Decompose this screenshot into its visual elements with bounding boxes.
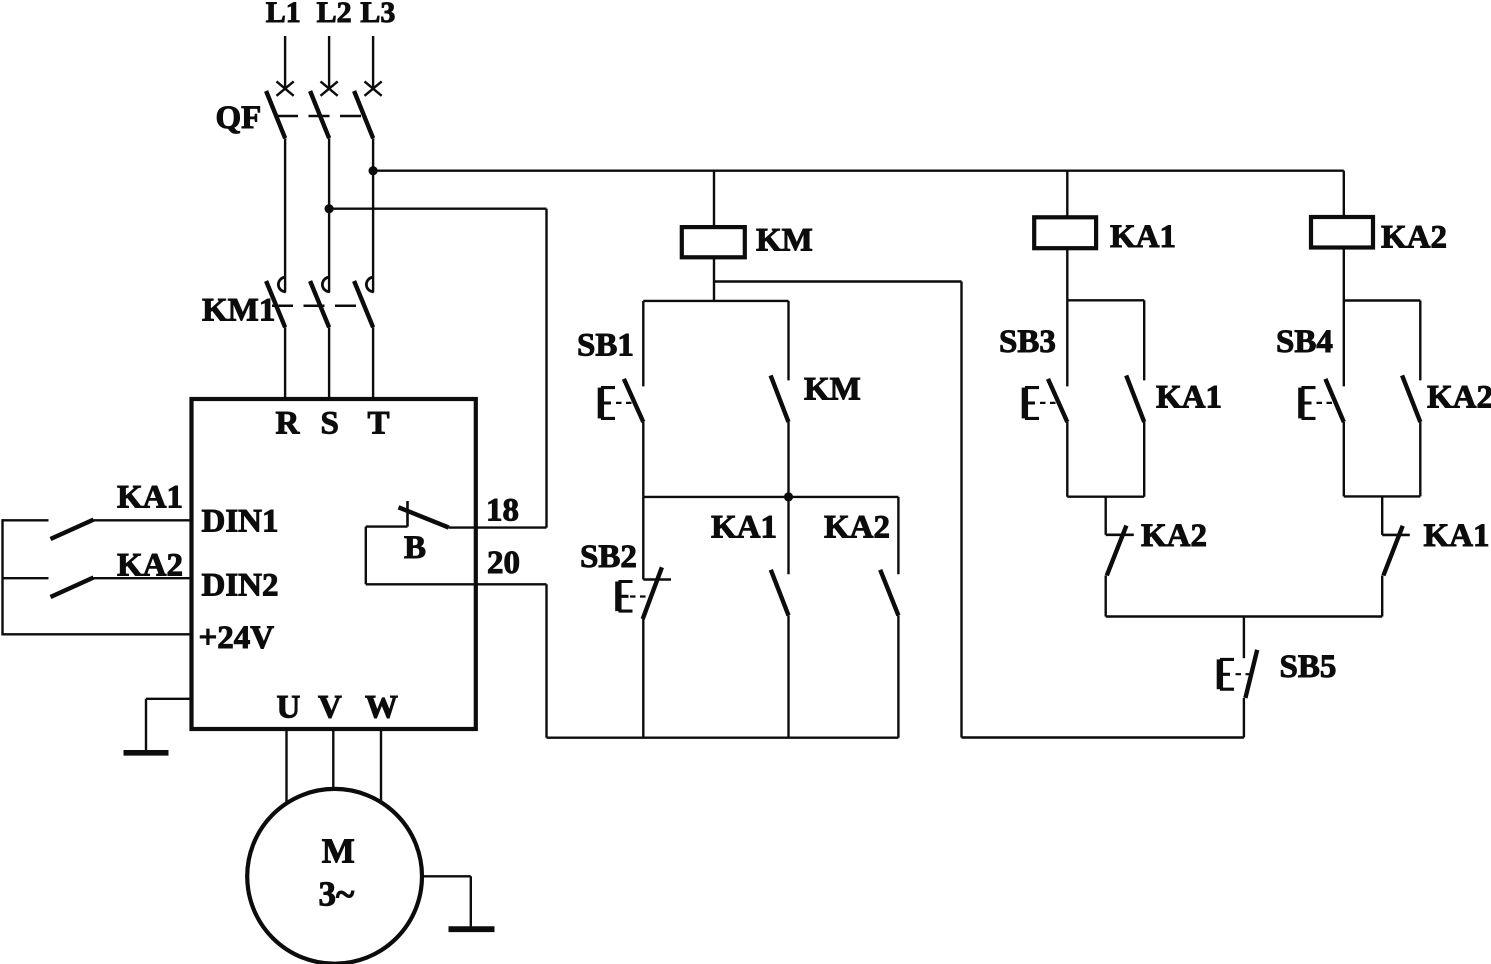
svg-text:KA2: KA2 <box>1141 518 1207 554</box>
svg-text:B: B <box>404 530 426 566</box>
svg-text:20: 20 <box>487 545 520 581</box>
wire inverter ground vertical <box>145 699 147 751</box>
pushbutton SB2 actuator E <box>619 580 633 612</box>
pushbutton SB2 link (dashed) <box>630 595 648 597</box>
wire bus corner down to KA2 coil <box>1343 171 1345 216</box>
wire middle bus <box>643 496 898 498</box>
wire bus drop to KM coil <box>713 171 715 226</box>
wire KM contact leg upper <box>787 301 789 381</box>
svg-text:18: 18 <box>486 493 519 529</box>
wire drop to KA1 NC contact <box>1381 496 1383 535</box>
wire KA1 NC leg lower <box>1381 576 1383 617</box>
pushbutton SB5 actuator E <box>1220 658 1234 691</box>
pushbutton SB5 blade <box>1245 650 1257 698</box>
wire terminal 20 row <box>366 583 547 585</box>
breaker QF pole 2 blade <box>310 91 329 138</box>
svg-text:S: S <box>321 406 339 442</box>
wire parallel bottom (SB3/KA1) <box>1067 496 1144 498</box>
contactor KM1 pole 1 fixed contact arc <box>278 277 285 292</box>
wire drop to SB5 <box>1243 617 1245 659</box>
pushbutton SB5 link (dashed) <box>1236 673 1251 675</box>
wire S-phase tap to corner <box>329 207 546 209</box>
svg-text:M: M <box>322 832 355 871</box>
svg-text:KA1: KA1 <box>1156 380 1222 416</box>
breaker QF pole 1 blade <box>266 91 285 138</box>
wire DIN1 row right segment <box>94 519 192 521</box>
svg-text:SB1: SB1 <box>577 328 634 364</box>
wire terminal 18 row <box>449 526 547 528</box>
svg-text:U: U <box>277 690 301 726</box>
relay contact KA2 blade (DIN2) <box>51 578 94 598</box>
svg-text:KM: KM <box>756 223 813 259</box>
wire KA1 coil bottom <box>1066 248 1068 300</box>
pushbutton SB3 actuator E <box>1025 386 1039 420</box>
inverter/VFD box U1 <box>192 399 476 729</box>
pushbutton SB4 actuator E <box>1302 386 1316 420</box>
svg-text:SB3: SB3 <box>999 324 1056 360</box>
wire DIN2 row left segment <box>3 577 49 579</box>
svg-text:W: W <box>365 690 398 726</box>
relay contact KA1 blade (hold) <box>1126 375 1144 422</box>
wire SB1 leg lower <box>642 422 644 497</box>
wire SB4 leg lower <box>1343 422 1345 496</box>
wire W to motor <box>380 729 382 803</box>
relay coil KA2 <box>1311 217 1373 248</box>
wire motor ground vertical <box>470 876 472 926</box>
wire KA2 contact leg lower <box>897 615 899 737</box>
pushbutton SB1 link (dashed) <box>616 402 634 404</box>
wire left return vertical <box>1 519 3 635</box>
pushbutton SB2 blade <box>643 567 662 619</box>
breaker QF linkage (dashed) <box>277 115 361 118</box>
ground bar (motor) <box>449 926 495 932</box>
svg-text:L2: L2 <box>317 0 352 29</box>
svg-text:QF: QF <box>216 100 262 136</box>
wire bottom return bus (middle) <box>547 737 899 739</box>
svg-text:KM1: KM1 <box>202 293 275 329</box>
wire +24V row <box>3 633 192 635</box>
wire parallel top (SB4/KA2) <box>1344 299 1421 301</box>
breaker QF pole 2 fixed contact X <box>321 81 338 95</box>
relay contact KA2 blade (mid) <box>880 570 898 616</box>
wire B left to bracket <box>366 525 408 527</box>
pushbutton SB4 blade <box>1325 379 1343 422</box>
wire KM1 pole 3 to inverter T <box>372 327 374 399</box>
wire L3 feeder <box>372 36 374 89</box>
svg-text:+24V: +24V <box>199 620 275 656</box>
ground bar (inverter) <box>124 750 169 756</box>
wire KM1 pole 2 to inverter S <box>328 327 330 399</box>
wire parallel top (SB1/KM) <box>643 300 788 302</box>
svg-text:L3: L3 <box>360 0 395 29</box>
svg-text:SB4: SB4 <box>1276 324 1333 360</box>
relay NC contact KA2 blade <box>1107 526 1127 576</box>
svg-text:L1: L1 <box>266 0 301 29</box>
wire bus drop to KA1 coil <box>1066 171 1068 216</box>
wire KA1 hold contact leg upper <box>1143 300 1145 380</box>
junction dot middle bus <box>784 492 793 501</box>
wire V to motor <box>332 729 334 790</box>
wire SB2 leg lower <box>642 619 644 738</box>
wire QF pole 3 to KM1 pole 3 <box>372 138 374 292</box>
svg-text:KM: KM <box>804 372 861 408</box>
junction dot T-phase to control bus <box>369 166 378 175</box>
relay contact KM blade <box>771 375 789 422</box>
wire QF pole 1 to KM1 pole 1 <box>284 138 286 292</box>
contactor KM1 pole 3 fixed contact arc <box>366 277 373 292</box>
svg-text:KA2: KA2 <box>1427 380 1491 416</box>
pushbutton SB1 actuator E <box>601 386 615 420</box>
wire KA1 contact leg upper <box>787 497 789 574</box>
wire parallel top (SB3/KA1) <box>1067 299 1144 301</box>
svg-text:KA1: KA1 <box>1110 219 1176 255</box>
contactor KM1 linkage (dashed) <box>272 305 361 308</box>
relay contact KA2 blade (hold) <box>1402 375 1420 422</box>
wire KM contact leg lower <box>787 422 789 497</box>
motor M circle <box>247 789 422 964</box>
svg-text:SB5: SB5 <box>1280 649 1337 685</box>
svg-text:R: R <box>276 406 301 442</box>
relay NC contact KA1 seat <box>1382 534 1410 537</box>
wire KA2 contact leg upper <box>897 497 899 574</box>
wire KM coil to right return branch <box>714 280 962 282</box>
svg-text:KA1: KA1 <box>711 510 777 546</box>
wire top control bus <box>373 169 1344 171</box>
wire KA2 hold contact leg upper <box>1419 301 1421 381</box>
switch B blade <box>399 507 449 527</box>
wire SB1 leg upper <box>642 301 644 387</box>
wire SB4 leg upper <box>1343 301 1345 387</box>
wire S-tap corner down to terminal 18 row <box>545 209 547 528</box>
wire KA2 NC leg lower <box>1104 575 1106 616</box>
pushbutton SB3 blade <box>1048 379 1067 422</box>
wire parallel bottom (SB4/KA2) <box>1344 495 1421 497</box>
wire right return vertical <box>960 282 962 738</box>
wire DIN1 row left segment <box>3 519 49 521</box>
wire terminal 20 corner down to control return <box>545 584 547 737</box>
svg-text:KA2: KA2 <box>824 510 890 546</box>
wire bracket vertical <box>365 527 367 585</box>
wire U to motor <box>285 729 287 804</box>
relay contact KA1 blade (DIN1) <box>51 520 94 539</box>
wire KM coil bottom <box>713 257 715 301</box>
svg-text:KA1: KA1 <box>117 480 183 516</box>
contactor KM1 pole 2 fixed contact arc <box>322 277 329 292</box>
svg-text:V: V <box>318 690 342 726</box>
pushbutton SB1 blade <box>624 379 643 422</box>
relay NC contact KA2 seat <box>1106 533 1134 536</box>
svg-text:DIN2: DIN2 <box>202 568 279 604</box>
svg-text:DIN1: DIN1 <box>202 504 279 540</box>
wire KA1 hold contact leg lower <box>1143 422 1145 497</box>
contactor KM1 pole 1 blade <box>266 281 285 327</box>
wire SB3 leg upper <box>1066 300 1068 386</box>
switch B fixed post <box>406 501 409 527</box>
wire KM1 pole 1 to inverter R <box>284 327 286 399</box>
contactor KM1 pole 2 blade <box>310 281 329 327</box>
wire L2 feeder <box>328 36 330 89</box>
svg-text:KA1: KA1 <box>1424 518 1490 554</box>
contactor coil KM <box>682 227 745 257</box>
breaker QF pole 1 fixed contact X <box>277 81 294 95</box>
wire KA1 contact leg lower <box>787 615 789 737</box>
pushbutton SB4 link (dashed) <box>1317 402 1335 404</box>
wire DIN2 row right segment <box>94 577 192 579</box>
wire SB5 leg lower <box>1243 698 1245 738</box>
relay NC contact KA1 blade <box>1383 526 1402 576</box>
wire bottom return bus (right) <box>962 736 1244 738</box>
contactor KM1 pole 3 blade <box>354 281 373 327</box>
wire QF pole 2 to KM1 pole 2 <box>328 138 330 292</box>
relay coil KA1 <box>1034 217 1096 248</box>
breaker QF pole 3 blade <box>354 91 373 138</box>
svg-text:KA2: KA2 <box>1381 220 1447 256</box>
wire SB3 leg lower <box>1066 422 1068 497</box>
wire drop to KA2 NC contact <box>1104 497 1106 535</box>
svg-text:T: T <box>368 406 390 442</box>
svg-text:3~: 3~ <box>319 875 355 914</box>
pushbutton SB3 link (dashed) <box>1040 402 1058 404</box>
wire L1 feeder <box>284 36 286 89</box>
wire motor ground horizontal <box>422 875 471 877</box>
junction dot S-phase tap <box>325 204 334 213</box>
breaker QF pole 3 fixed contact X <box>365 81 382 95</box>
wire KA2 coil bottom <box>1343 248 1345 301</box>
wire KA2 hold contact leg lower <box>1419 422 1421 496</box>
svg-text:SB2: SB2 <box>580 539 637 575</box>
wire interlock cross bus <box>1106 615 1383 617</box>
wire inverter ground horizontal <box>146 698 192 700</box>
wire SB2 leg upper <box>642 497 644 580</box>
relay contact KA1 blade (mid) <box>771 570 789 616</box>
pushbutton SB2 seat <box>643 578 671 581</box>
